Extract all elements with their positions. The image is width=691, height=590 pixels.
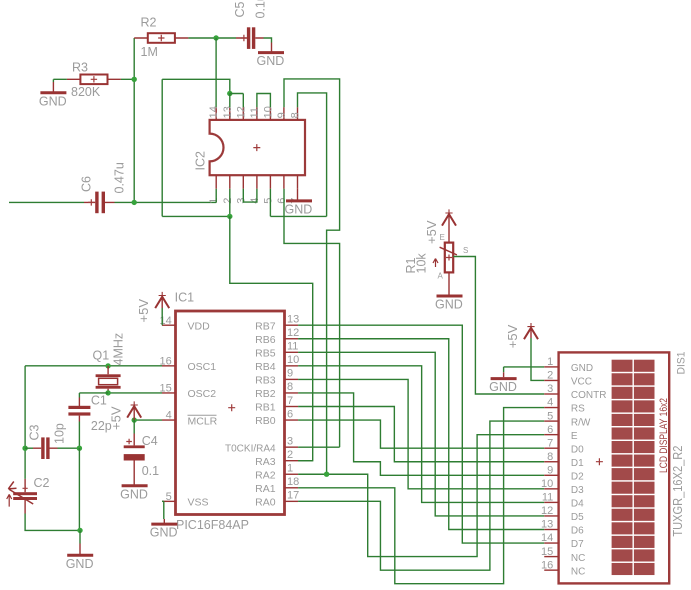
svg-text:820K: 820K (71, 85, 101, 99)
svg-text:18: 18 (287, 476, 299, 488)
svg-text:RB2: RB2 (255, 388, 276, 400)
svg-text:D1: D1 (571, 458, 584, 469)
svg-text:RB5: RB5 (255, 348, 276, 360)
ground GND bottom left (77, 528, 82, 533)
pin 12 IC2 (242, 107, 244, 120)
pin 11 IC1 right stub (285, 351, 299, 353)
pin 2 IC1 right stub (285, 460, 299, 462)
svg-text:14: 14 (541, 532, 553, 544)
wire RA3 net (298, 460, 313, 462)
svg-text:GND: GND (571, 363, 593, 374)
svg-text:10: 10 (541, 478, 553, 490)
svg-text:1M: 1M (141, 45, 158, 59)
svg-text:0.1: 0.1 (142, 464, 159, 478)
svg-text:4: 4 (166, 410, 172, 422)
pin 7 DIS1 (544, 447, 558, 449)
wire pin13/12 loop (162, 79, 230, 93)
svg-text:RB6: RB6 (255, 334, 276, 346)
pin 10 IC1 right stub (285, 365, 299, 367)
wire MCLR row (134, 419, 162, 421)
pin 6 IC2 (283, 175, 285, 189)
svg-text:5: 5 (547, 410, 553, 422)
svg-text:S: S (463, 246, 468, 255)
svg-text:DIS1: DIS1 (676, 352, 688, 375)
pin 14 DIS1 (544, 542, 558, 544)
svg-text:D4: D4 (571, 499, 584, 510)
svg-text:GND: GND (285, 203, 313, 217)
svg-text:RA0: RA0 (255, 497, 276, 509)
svg-text:TUXGR_16X2_R2: TUXGR_16X2_R2 (670, 446, 685, 537)
svg-text:VCC: VCC (571, 377, 592, 388)
svg-text:LCD DISPLAY 16x2: LCD DISPLAY 16x2 (658, 398, 670, 473)
svg-text:IC1: IC1 (175, 290, 195, 304)
pin 15 IC1 left stub (162, 392, 176, 394)
pin 8 DIS1 (544, 461, 558, 463)
ground GND at R3 (52, 79, 54, 82)
svg-text:OSC1: OSC1 (188, 361, 217, 373)
wire pins 3-4 U (243, 189, 257, 202)
svg-text:D2: D2 (571, 472, 584, 483)
op-amp/IC U IC2 body (210, 120, 305, 175)
pin 4 IC1 left stub (162, 419, 176, 421)
svg-text:12: 12 (235, 106, 247, 118)
svg-text:10: 10 (287, 354, 299, 366)
pin 16 DIS1 (544, 569, 558, 571)
svg-text:9: 9 (287, 368, 293, 380)
wire (264, 38, 272, 43)
capacitor C2 trimmer (24, 479, 26, 492)
pin 7 IC1 right stub (285, 406, 299, 408)
svg-text:13: 13 (222, 106, 234, 118)
pin 1 DIS1 (544, 366, 558, 368)
power +5V at MCLR (133, 406, 135, 420)
svg-text:C5: C5 (233, 1, 247, 17)
svg-text:4MHz: 4MHz (112, 333, 126, 366)
svg-text:RB0: RB0 (255, 415, 276, 427)
svg-text:1: 1 (208, 198, 220, 204)
svg-text:+5V: +5V (424, 220, 439, 244)
pin 3 DIS1 (544, 393, 558, 395)
svg-text:5: 5 (262, 198, 274, 204)
svg-text:8: 8 (547, 451, 553, 463)
wire pin9 loop to RA2 (284, 79, 340, 474)
svg-text:R3: R3 (72, 61, 88, 75)
wire pin1 to C6 row (215, 189, 217, 203)
svg-text:VSS: VSS (188, 497, 209, 509)
node R2-C5-pin14 junction (213, 35, 218, 40)
wire (115, 201, 217, 203)
svg-text:11: 11 (542, 492, 553, 504)
pin 16 IC1 left stub (162, 365, 176, 367)
pin 3 IC2 (242, 175, 244, 189)
svg-text:11: 11 (287, 341, 298, 353)
crystal Q1 (107, 366, 109, 393)
svg-text:NC: NC (571, 553, 585, 564)
svg-text:IC2: IC2 (194, 151, 208, 171)
pin 18 IC1 right stub (285, 487, 299, 489)
svg-text:6: 6 (287, 408, 293, 420)
svg-text:8: 8 (290, 112, 302, 118)
svg-text:CONTR: CONTR (571, 390, 607, 401)
svg-text:RA3: RA3 (255, 456, 276, 468)
svg-text:13: 13 (287, 314, 299, 326)
svg-text:RB3: RB3 (255, 375, 276, 387)
svg-text:10k: 10k (415, 253, 429, 274)
svg-text:D6: D6 (571, 526, 584, 537)
svg-text:RB7: RB7 (255, 320, 276, 332)
svg-text:+5V: +5V (109, 406, 124, 430)
wire RA1 net (298, 408, 544, 584)
wire VCC (531, 338, 544, 380)
svg-text:4: 4 (547, 397, 553, 409)
svg-text:17: 17 (287, 490, 299, 502)
wire RB6 net (298, 339, 544, 530)
wire C1/C3 node down (78, 448, 80, 530)
svg-text:GND: GND (66, 557, 94, 571)
wire RB7 net (298, 325, 544, 543)
resistor R3 (53, 78, 134, 80)
wire (133, 38, 135, 202)
pin 5 IC2 (269, 175, 271, 189)
pin 6 IC1 right stub (285, 419, 299, 421)
capacitor C1 (79, 392, 108, 394)
pin 14 IC1 left stub (162, 324, 176, 326)
svg-text:6: 6 (547, 424, 553, 436)
svg-text:GND: GND (489, 380, 517, 394)
capacitor C4 (133, 420, 135, 433)
pin 12 IC1 right stub (285, 338, 299, 340)
capacitor C5 (236, 37, 264, 39)
svg-text:RA1: RA1 (255, 483, 276, 495)
IC U1 PIC16F84AP body (176, 311, 285, 515)
svg-text:MCLR: MCLR (188, 415, 218, 427)
connector DIS1 LCD DISPLAY 16x2 body (559, 352, 670, 583)
ground GND at R1 (448, 272, 450, 295)
wire pin8 loop to pin5 (270, 93, 326, 216)
wire RB4 net (298, 366, 544, 503)
pin 10 IC2 (269, 107, 271, 120)
wire OSC2 row (108, 392, 162, 394)
svg-text:7: 7 (547, 437, 553, 449)
wire pin2 (229, 189, 231, 217)
pin 13 IC1 right stub (285, 324, 299, 326)
svg-text:15: 15 (541, 546, 553, 558)
svg-text:+5V: +5V (505, 324, 520, 348)
LCD cells (612, 360, 633, 372)
wire pin6 to T0CKI row (284, 189, 340, 447)
svg-text:2: 2 (222, 198, 234, 204)
svg-text:3: 3 (235, 198, 247, 204)
wire RB1 net (298, 407, 544, 462)
pin 5 IC1 left stub (162, 500, 176, 502)
svg-text:RA2: RA2 (255, 469, 276, 481)
wire RB2 net (298, 393, 544, 475)
wire OSC1 down to C2 (24, 366, 26, 479)
pin 12 DIS1 (544, 515, 558, 517)
svg-text:C1: C1 (91, 394, 107, 408)
pin 11 IC2 (256, 107, 258, 120)
svg-text:A: A (438, 272, 444, 281)
svg-text:C4: C4 (142, 434, 158, 448)
wire (215, 38, 217, 107)
svg-text:2: 2 (547, 370, 553, 382)
svg-text:0.1u: 0.1u (254, 0, 268, 19)
ground GND at C5 (271, 43, 273, 52)
pin 14 IC2 (215, 107, 217, 120)
pin 2 IC2 (229, 175, 231, 189)
svg-text:16: 16 (541, 559, 553, 571)
svg-text:1: 1 (547, 356, 553, 368)
svg-text:13: 13 (541, 519, 553, 531)
svg-text:RB1: RB1 (255, 402, 276, 414)
pin 11 DIS1 (544, 501, 558, 503)
pin 9 IC1 right stub (285, 378, 299, 380)
pin 10 DIS1 (544, 488, 558, 490)
svg-text:1: 1 (287, 463, 293, 475)
svg-text:PIC16F84AP: PIC16F84AP (176, 518, 249, 532)
pin 8 IC1 right stub (285, 392, 299, 394)
svg-text:14: 14 (208, 106, 220, 118)
pin 4 DIS1 (544, 407, 558, 409)
svg-text:12: 12 (541, 505, 553, 517)
wire net alpha to RA3 (230, 216, 313, 460)
power +5V at LCD (530, 328, 532, 338)
svg-text:RS: RS (571, 404, 585, 415)
svg-text:10: 10 (262, 106, 274, 118)
pin 8 IC2 (297, 107, 299, 120)
wire OSC1 row (25, 365, 162, 367)
pin 6 DIS1 (544, 434, 558, 436)
svg-text:0.47u: 0.47u (113, 162, 127, 193)
svg-text:C6: C6 (80, 176, 94, 192)
svg-text:R/W: R/W (571, 417, 591, 428)
potentiometer R1 10k (445, 243, 453, 273)
svg-text:2: 2 (287, 449, 293, 461)
node R3 junction (132, 77, 137, 82)
svg-text:VDD: VDD (188, 321, 211, 333)
svg-text:3: 3 (287, 435, 293, 447)
svg-text:RB4: RB4 (255, 361, 276, 373)
wire pins 11-10 U (257, 94, 271, 108)
pin 13 IC2 (229, 107, 231, 120)
svg-text:12: 12 (287, 327, 299, 339)
svg-text:4: 4 (249, 198, 261, 204)
wire RA0 net (298, 421, 544, 570)
pin 4 IC2 (256, 175, 258, 189)
power +5V at R1 (448, 214, 450, 243)
pin 9 IC2 (283, 107, 285, 120)
wire RB5 net (298, 352, 544, 516)
svg-text:9: 9 (547, 465, 553, 477)
wire RB3 net (298, 379, 544, 488)
svg-text:D3: D3 (571, 485, 584, 496)
pin 13 DIS1 (544, 529, 558, 531)
ground GND at LCD pin1 (504, 367, 545, 372)
svg-text:GND: GND (435, 298, 463, 312)
pin 2 DIS1 (544, 379, 558, 381)
svg-text:R2: R2 (141, 16, 157, 30)
node C6 junction (132, 200, 137, 205)
pin 1 IC1 right stub (285, 473, 299, 475)
svg-text:14: 14 (160, 315, 172, 327)
wire (188, 37, 236, 39)
svg-text:5: 5 (166, 491, 172, 503)
svg-text:8: 8 (287, 381, 293, 393)
wire T0CKI net (298, 446, 340, 448)
pin 1 IC2 (215, 175, 217, 189)
wire RB0 net (298, 420, 544, 448)
svg-text:D0: D0 (571, 444, 584, 455)
svg-text:D5: D5 (571, 512, 584, 523)
svg-text:GND: GND (120, 487, 148, 501)
svg-text:GND: GND (39, 94, 67, 108)
svg-text:NC: NC (571, 566, 585, 577)
pin 9 DIS1 (544, 474, 558, 476)
wire VSS to GND (162, 501, 164, 519)
svg-text:10p: 10p (53, 423, 67, 444)
node RA2 / IC2 pin9 junction (324, 472, 329, 477)
svg-text:E: E (440, 233, 445, 242)
svg-text:C3: C3 (28, 424, 42, 440)
svg-text:+5V: +5V (136, 299, 151, 323)
ground GND at IC2 pin7 (297, 189, 299, 200)
svg-text:GND: GND (257, 54, 285, 68)
svg-text:9: 9 (276, 112, 288, 118)
capacitor C3 (22, 446, 27, 451)
pin 7 IC2 (297, 175, 299, 189)
pin 17 IC1 right stub (285, 500, 299, 502)
wire RA2 net (298, 435, 544, 557)
svg-text:OSC2: OSC2 (188, 388, 217, 400)
svg-text:D7: D7 (571, 539, 584, 550)
resistor R2 (134, 37, 188, 39)
svg-text:E: E (571, 431, 578, 442)
svg-text:Q1: Q1 (93, 349, 110, 363)
svg-text:7: 7 (287, 395, 293, 407)
pin 15 DIS1 (544, 556, 558, 558)
svg-text:C2: C2 (34, 476, 50, 490)
svg-text:11: 11 (249, 107, 261, 118)
node pin2 junction (227, 214, 232, 219)
capacitor C6 (9, 201, 84, 203)
svg-text:T0CKI/RA4: T0CKI/RA4 (225, 443, 276, 454)
svg-text:GND: GND (150, 526, 178, 540)
svg-text:3: 3 (547, 383, 553, 395)
power +5V at IC1 VDD (161, 308, 163, 325)
pin 3 IC1 right stub (285, 446, 299, 448)
pin 5 DIS1 (544, 420, 558, 422)
wire R1 wiper to LCD CONTR (453, 257, 544, 395)
